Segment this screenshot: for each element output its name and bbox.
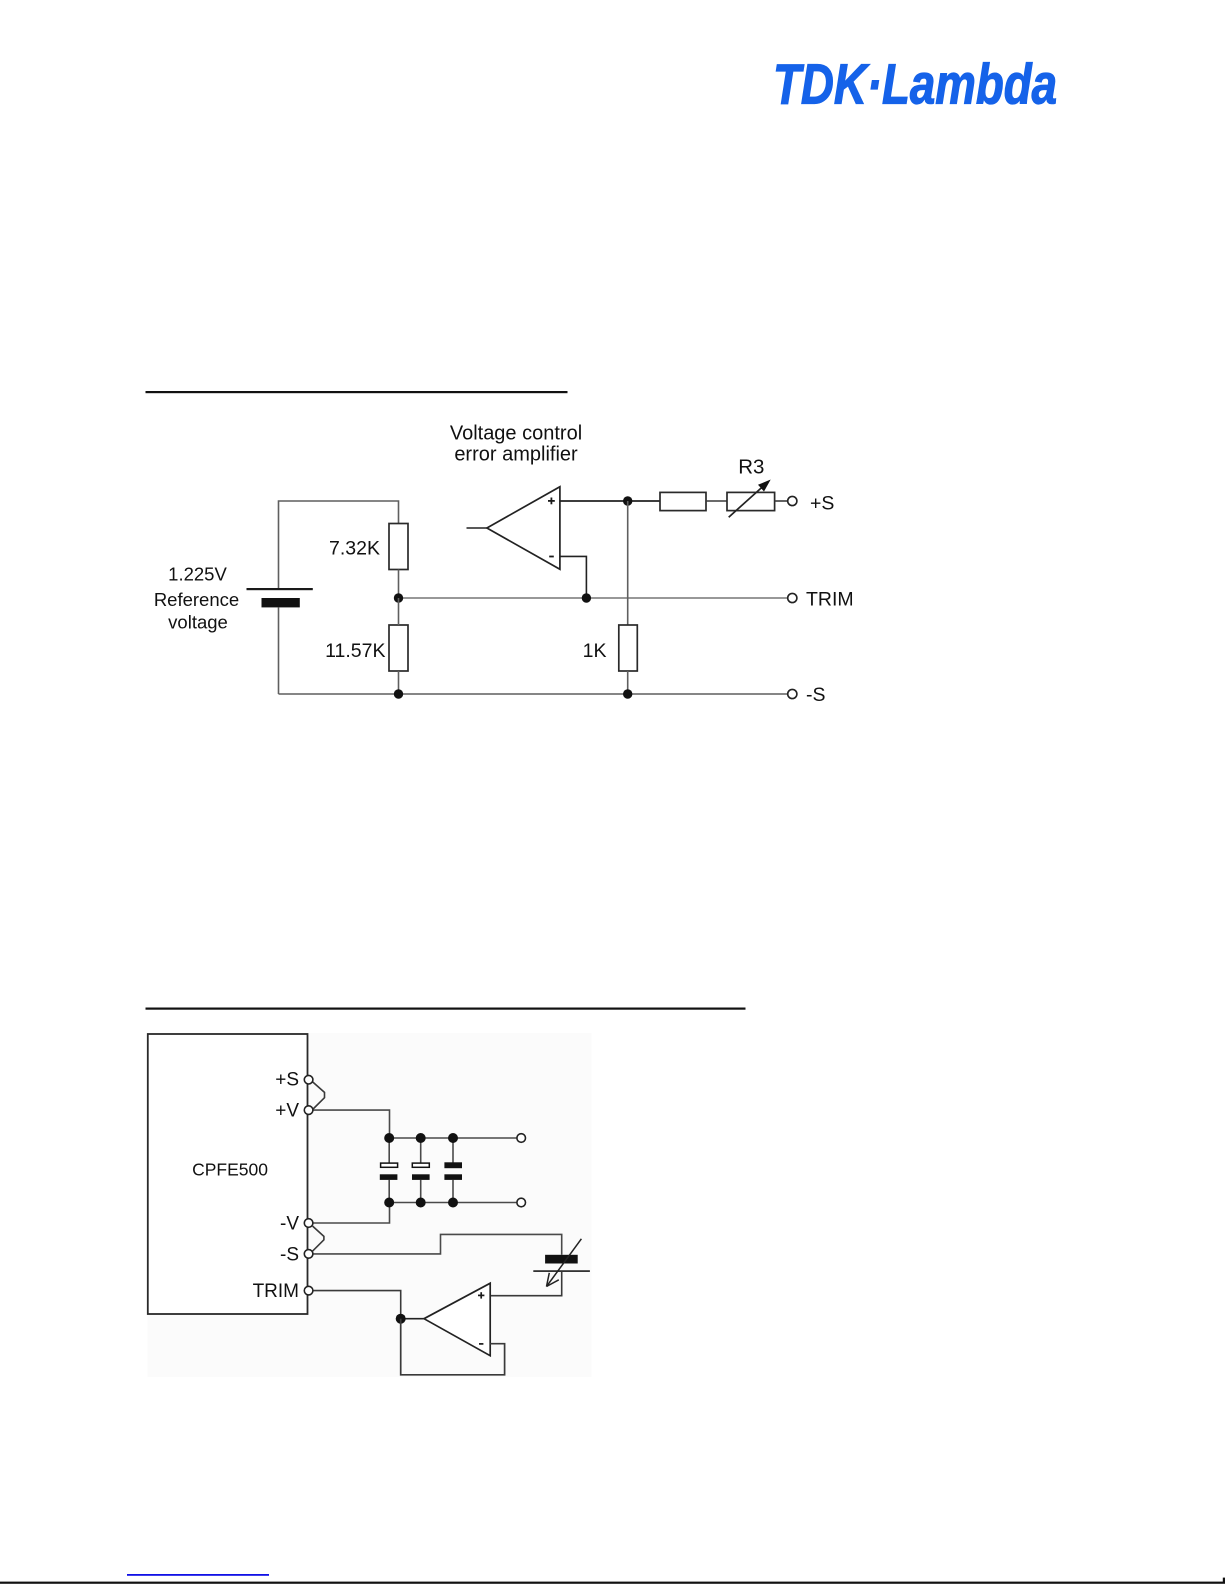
svg-text:1K: 1K	[583, 640, 607, 662]
capacitor C1 plate - solid	[380, 1174, 398, 1180]
resistor 11.57K	[389, 625, 408, 671]
wire R3 to terminal +S	[775, 500, 788, 502]
svg-text:voltage: voltage	[168, 611, 228, 632]
wire -S to battery top	[313, 1234, 562, 1254]
capacitor C2 leads	[420, 1138, 422, 1203]
capacitor C3 leads	[452, 1138, 454, 1203]
CPFE500 power supply box	[148, 1034, 308, 1314]
wire +V to cap rail	[313, 1110, 390, 1138]
terminal +S	[788, 496, 797, 505]
capacitor C3 plate top solid	[444, 1162, 462, 1168]
wire 1K bottom to -S rail	[627, 671, 629, 694]
battery adjustable plate bottom	[533, 1270, 590, 1272]
op-amp U2 - pin label	[479, 1343, 483, 1345]
svg-text:+S: +S	[810, 492, 834, 514]
svg-text:-V: -V	[280, 1214, 299, 1235]
op-amp U2 output stub	[401, 1318, 424, 1320]
svg-text:1.225V: 1.225V	[168, 564, 227, 585]
wire bottom rail to -V	[313, 1203, 390, 1224]
bottom -S rail wire	[279, 693, 788, 695]
feedback wire - input	[401, 1319, 505, 1375]
svg-text:R3: R3	[738, 456, 764, 479]
node divider junction	[394, 593, 403, 602]
node top rail junction 3	[448, 1133, 458, 1143]
svg-text:-S: -S	[280, 1244, 299, 1265]
capacitor C3 plate bottom solid	[444, 1174, 462, 1180]
terminal pin +V	[304, 1106, 313, 1115]
svg-text:CPFE500: CPFE500	[192, 1160, 268, 1180]
wire TRIM to op-amp output node	[313, 1291, 401, 1319]
svg-text:-S: -S	[806, 684, 826, 706]
top rail wire	[390, 1137, 518, 1139]
node +S branch junction	[623, 496, 632, 505]
op-amp U1	[487, 487, 560, 570]
terminal -S	[788, 689, 797, 698]
battery adjustable plate top	[545, 1255, 578, 1264]
node 1K bottom junction	[623, 689, 632, 698]
terminal output +	[517, 1134, 526, 1143]
wire junction down to 1K	[627, 501, 629, 625]
svg-text:7.32K: 7.32K	[329, 538, 380, 560]
jumper wire +S to +V	[312, 1082, 324, 1110]
op-amp U2 + pin label	[478, 1292, 484, 1298]
node 11.57K bottom junction	[394, 689, 403, 698]
wire 11.57K bottom to -S rail	[398, 671, 400, 694]
svg-text:11.57K: 11.57K	[325, 640, 385, 662]
variable resistor R3	[727, 492, 775, 510]
bottom rail wire	[390, 1202, 518, 1204]
capacitor C1 leads	[388, 1138, 390, 1203]
node - input TRIM junction	[582, 593, 591, 602]
wire battery- down to -S rail	[278, 607, 280, 694]
op-amp U1 + pin label	[548, 498, 555, 505]
battery arrow	[547, 1239, 582, 1287]
node bottom rail junction 2	[416, 1198, 426, 1208]
TRIM rail wire	[399, 597, 788, 599]
capacitor C2 plate - solid	[412, 1174, 430, 1180]
terminal pin -V	[304, 1219, 313, 1228]
capacitor C2 plate + hollow	[412, 1163, 429, 1167]
wire 7.32K bottom to TRIM node	[398, 570, 400, 599]
resistor 1K	[619, 625, 638, 671]
svg-text:TDK·Lambda: TDK·Lambda	[773, 53, 1057, 117]
footer link underline	[127, 1574, 269, 1576]
svg-text:error amplifier: error amplifier	[454, 444, 578, 466]
node top rail junction 1	[384, 1133, 394, 1143]
battery 1.225V reference plate +	[247, 588, 313, 590]
node top rail junction 2	[416, 1133, 426, 1143]
footer rule right tick	[1223, 1578, 1225, 1583]
resistor 7.32K	[389, 524, 408, 570]
wire between series resistor and R3	[706, 500, 727, 502]
op-amp U1 output stub	[467, 527, 487, 529]
terminal TRIM	[788, 593, 797, 602]
figure 2 heading rule	[146, 1008, 746, 1010]
terminal pin +S	[304, 1075, 313, 1084]
R3 arrow	[729, 480, 771, 518]
jumper wire -V to -S	[313, 1226, 324, 1251]
terminal pin -S	[304, 1250, 313, 1259]
footer rule	[0, 1582, 1225, 1584]
terminal output -	[517, 1198, 526, 1207]
terminal pin TRIM	[304, 1286, 313, 1295]
label: Voltage control error amplifier	[450, 423, 582, 466]
node op-amp U2 output junction	[396, 1314, 406, 1324]
node bottom rail junction 3	[448, 1198, 458, 1208]
battery 1.225V reference plate -	[262, 598, 300, 607]
wire battery+ to resistor 7.32K top	[279, 501, 399, 589]
svg-text:Reference: Reference	[154, 589, 239, 610]
op-amp U1 - pin label	[549, 556, 554, 558]
wire op-amp - input to TRIM rail	[560, 556, 587, 598]
wire TRIM node to 11.57K top	[398, 598, 400, 625]
capacitor C1 plate + hollow	[381, 1163, 398, 1167]
wire op-amp + input to series resistor	[560, 500, 660, 502]
svg-text:+S: +S	[275, 1070, 299, 1091]
schematic 2 background	[148, 1033, 592, 1377]
label 1.225V Reference voltage	[154, 564, 239, 633]
svg-text:+V: +V	[275, 1101, 299, 1122]
svg-text:TRIM: TRIM	[253, 1281, 299, 1302]
op-amp U2	[424, 1283, 490, 1356]
wire battery to op-amp + input	[490, 1272, 562, 1296]
node bottom rail junction 1	[384, 1198, 394, 1208]
figure 1 heading rule	[146, 391, 568, 393]
svg-text:TRIM: TRIM	[806, 588, 854, 610]
svg-text:Voltage control: Voltage control	[450, 423, 582, 445]
series resistor fixed	[660, 492, 706, 510]
